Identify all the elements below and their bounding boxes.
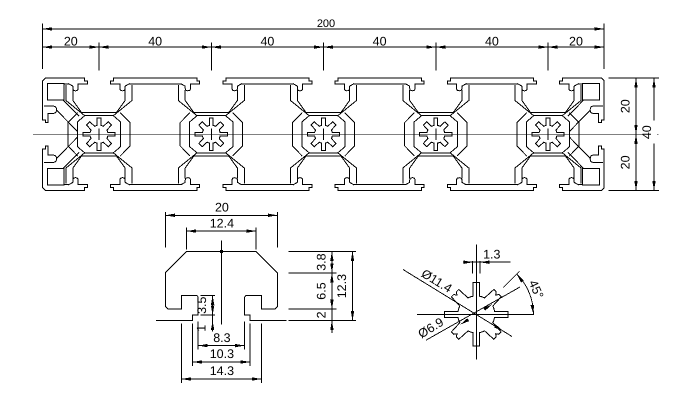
column center lines bbox=[99, 43, 548, 70]
T-slot bottom column 2 bbox=[181, 156, 241, 191]
right dims extension lines bbox=[609, 78, 659, 190]
detail dim 3.5 line bbox=[212, 295, 214, 315]
slot detail centerline bbox=[220, 240, 222, 324]
right dim 40 line bbox=[653, 78, 655, 190]
svg-text:Ø11.4: Ø11.4 bbox=[419, 266, 455, 295]
dim 200 extension lines bbox=[43, 24, 605, 68]
detail dim chain line bbox=[331, 252, 333, 333]
right dim 20-20 arrows bbox=[634, 78, 637, 88]
T-slot bottom column 1 bbox=[69, 156, 129, 191]
detail dim 8.3 arrows bbox=[198, 344, 208, 347]
star detail 1.3 line bbox=[463, 261, 510, 263]
slot detail center dot bbox=[220, 250, 223, 253]
dim 45deg arrows bbox=[531, 305, 534, 315]
detail right ext lines bbox=[289, 252, 356, 321]
svg-text:40: 40 bbox=[485, 34, 499, 48]
detail chain arrows bbox=[330, 252, 333, 262]
svg-text:20: 20 bbox=[64, 34, 78, 48]
detail dim 14.3 line bbox=[181, 378, 261, 380]
boss octagon column 2 bbox=[190, 116, 233, 153]
slot detail surface lines bbox=[157, 320, 287, 322]
profile right end edge bbox=[601, 78, 604, 190]
detail dim 12.4 arrows bbox=[187, 229, 197, 232]
svg-text:14.3: 14.3 bbox=[210, 364, 234, 378]
leader O11.4 line bbox=[403, 270, 512, 337]
star detail outline bbox=[445, 283, 508, 346]
detail dim 12.4 ext lines bbox=[187, 228, 256, 249]
right dim 40 arrows bbox=[652, 78, 655, 88]
star detail horizontal centerline bbox=[417, 313, 534, 315]
svg-text:6.5: 6.5 bbox=[314, 282, 328, 299]
right dim 20-20 line bbox=[635, 78, 637, 190]
detail dim 8.3 ext lines bbox=[198, 322, 244, 349]
right end cap details bbox=[562, 83, 604, 185]
detail dim 1 line bbox=[212, 315, 214, 332]
T-slot top column 3 bbox=[293, 78, 353, 113]
svg-text:12.3: 12.3 bbox=[335, 274, 349, 298]
svg-text:40: 40 bbox=[148, 34, 162, 48]
svg-text:200: 200 bbox=[317, 18, 335, 30]
svg-text:40: 40 bbox=[373, 34, 387, 48]
leader O6.9 arrow bbox=[483, 304, 492, 310]
segment dim extension lines bbox=[99, 43, 548, 69]
svg-text:8.3: 8.3 bbox=[213, 331, 230, 345]
star center tick column 2 bbox=[210, 129, 212, 140]
star detail vertical centerline bbox=[475, 245, 477, 360]
boss octagon column 1 bbox=[77, 116, 120, 153]
svg-text:20: 20 bbox=[569, 34, 583, 48]
star center tick column 1 bbox=[98, 129, 100, 140]
T-slot top column 2 bbox=[181, 78, 241, 113]
detail dim 8.3 line bbox=[198, 345, 244, 347]
cavity between columns 2-3 bbox=[226, 84, 310, 185]
right dim 40 text bbox=[646, 121, 657, 144]
detail dim 14.3 ext lines bbox=[181, 324, 261, 383]
svg-text:40: 40 bbox=[260, 34, 274, 48]
detail dim 1 arrows bbox=[211, 321, 214, 331]
T-slot bottom column 4 bbox=[406, 156, 466, 191]
star center tick column 4 bbox=[435, 129, 437, 140]
detail 3.5-1 ext lines bbox=[201, 295, 215, 315]
star screw-boss column 5 bbox=[532, 118, 564, 150]
profile outer top surface bbox=[45, 77, 601, 79]
boss octagon column 3 bbox=[302, 116, 345, 153]
profile outer bottom surface bbox=[45, 189, 601, 191]
detail dim 20 ext lines bbox=[165, 213, 277, 248]
detail dim 3.5 arrows bbox=[211, 295, 214, 305]
detail dim 12.3 arrows bbox=[351, 252, 354, 262]
dim 45deg radius line bbox=[503, 271, 519, 287]
boss octagon column 4 bbox=[414, 116, 457, 153]
profile left end edge bbox=[43, 78, 46, 190]
cavity between columns 4-5 bbox=[450, 84, 534, 185]
detail dim 12.4 line bbox=[187, 230, 256, 232]
detail dim 12.3 line bbox=[352, 252, 354, 321]
horizontal centerline bbox=[33, 133, 659, 135]
svg-text:45°: 45° bbox=[526, 278, 546, 301]
detail dim 10.3 ext lines bbox=[193, 324, 251, 366]
cavity between columns 1-2 bbox=[113, 84, 197, 185]
detail dim 10.3 line bbox=[193, 361, 251, 363]
svg-text:1.3: 1.3 bbox=[483, 247, 500, 261]
leader O11.4 arrow bbox=[494, 325, 503, 331]
T-slot top column 1 bbox=[69, 78, 129, 113]
segment dim line bbox=[43, 46, 605, 48]
slot detail outline bbox=[165, 252, 277, 321]
T-slot bottom column 5 bbox=[518, 156, 578, 191]
detail dim 14.3 arrows bbox=[181, 377, 191, 380]
boss octagon column 5 bbox=[526, 116, 569, 153]
star screw-boss column 4 bbox=[420, 118, 452, 150]
T-slot top column 5 bbox=[518, 78, 578, 113]
svg-text:2: 2 bbox=[314, 311, 328, 318]
star center tick column 5 bbox=[547, 129, 549, 140]
star screw-boss column 3 bbox=[307, 118, 339, 150]
svg-text:20: 20 bbox=[215, 200, 229, 214]
svg-text:40: 40 bbox=[640, 125, 654, 139]
cavity between columns 3-4 bbox=[338, 84, 422, 185]
svg-text:1: 1 bbox=[195, 325, 209, 332]
star screw-boss column 1 bbox=[83, 118, 115, 150]
T-slot top column 4 bbox=[406, 78, 466, 113]
left end cap details bbox=[43, 83, 85, 185]
svg-text:10.3: 10.3 bbox=[210, 347, 234, 361]
svg-text:3.8: 3.8 bbox=[314, 253, 328, 270]
dim 45deg arc bbox=[517, 274, 534, 314]
star detail 1.3 arrows bbox=[464, 261, 474, 264]
detail dim 20 line bbox=[165, 214, 277, 216]
detail dim 10.3 arrows bbox=[193, 360, 203, 363]
star center tick column 3 bbox=[323, 129, 325, 140]
segment dim arrows bbox=[43, 45, 53, 48]
leader O6.9 line bbox=[426, 287, 520, 340]
svg-text:20: 20 bbox=[619, 155, 633, 169]
detail dim 20 arrows bbox=[165, 214, 175, 217]
dim 200 arrows bbox=[43, 27, 53, 30]
svg-text:20: 20 bbox=[619, 99, 633, 113]
T-slot bottom column 3 bbox=[293, 156, 353, 191]
star screw-boss column 2 bbox=[195, 118, 227, 150]
star detail 1.3 ext lines bbox=[473, 262, 480, 273]
dim 200 line bbox=[43, 28, 605, 30]
svg-text:12.4: 12.4 bbox=[210, 216, 234, 230]
svg-text:3.5: 3.5 bbox=[195, 296, 209, 313]
